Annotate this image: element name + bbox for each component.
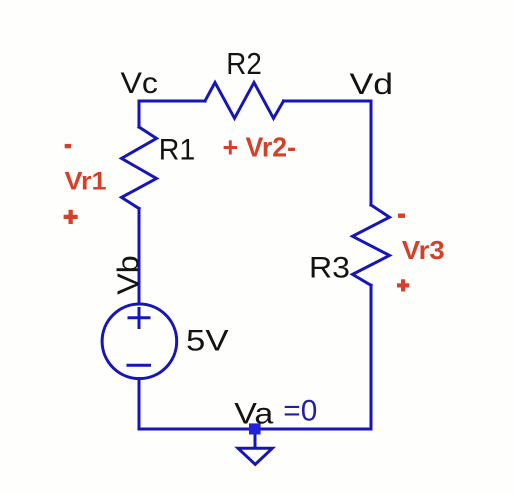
- junction node square at Va: [249, 423, 261, 434]
- svg-text:R3: R3: [309, 251, 350, 284]
- resistor R2: [205, 83, 284, 119]
- svg-text:R2: R2: [226, 46, 261, 81]
- svg-text:Va: Va: [234, 398, 273, 431]
- svg-text:5V: 5V: [186, 325, 229, 358]
- ground symbol triangle: [238, 448, 272, 464]
- svg-text:R1: R1: [159, 134, 196, 167]
- svg-text:Vc: Vc: [121, 67, 159, 100]
- resistor R3: [353, 205, 390, 285]
- V1 plus sign: [129, 316, 149, 319]
- wire R3 bottom to ground node: [255, 285, 371, 429]
- V1 minus sign: [128, 364, 150, 367]
- resistor R1: [122, 127, 157, 209]
- svg-text:+ Vr2-: + Vr2-: [223, 132, 297, 163]
- polarity minus for Vr1: [65, 144, 71, 148]
- svg-text:Vr1: Vr1: [65, 168, 107, 196]
- polarity plus for Vr1: [64, 215, 78, 219]
- svg-text:Vr3: Vr3: [402, 235, 445, 265]
- svg-text:Vd: Vd: [350, 68, 394, 101]
- ground stub wire: [254, 429, 257, 448]
- wire Vc corner: R2 lead to R1 lead: [139, 101, 205, 127]
- svg-text:=0: =0: [283, 395, 317, 428]
- svg-text:Vb: Vb: [112, 255, 145, 295]
- polarity plus for Vr3: [397, 283, 409, 287]
- voltage source V1 circle: [102, 304, 177, 379]
- wire V1 plus terminal up to R1 bottom: [138, 209, 141, 305]
- wire ground node to V1 minus terminal: [139, 379, 255, 429]
- polarity minus for Vr3: [398, 213, 405, 217]
- wire Vd corner: R2 to R3: [284, 101, 372, 205]
